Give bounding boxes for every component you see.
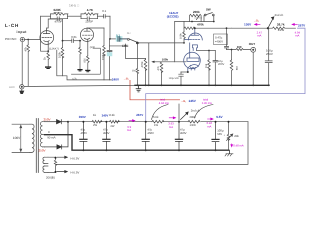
svg-text:2W: 2W	[110, 125, 114, 128]
feedback rail left drop	[41, 16, 49, 51]
svg-text:mA: mA	[169, 125, 173, 129]
magenta arrow right	[169, 117, 175, 119]
svg-text:→B₂: →B₂	[253, 20, 259, 23]
transformer HV secondary	[40, 122, 46, 147]
magenta 0.48 mA down arrow	[231, 144, 233, 147]
svg-text:mA: mA	[295, 34, 299, 38]
svg-text:mA: mA	[127, 128, 131, 132]
svg-text:4700P: 4700P	[55, 21, 63, 24]
earth terminal	[20, 85, 24, 89]
wire feedback rail	[41, 15, 51, 17]
svg-text:AUX: AUX	[9, 85, 15, 89]
diode D1	[45, 120, 69, 124]
plate wire V1b to 150k	[87, 27, 104, 29]
svg-text:2nd ch: 2nd ch	[275, 13, 284, 17]
junction	[62, 40, 64, 42]
resistor 15k cathode	[208, 51, 211, 86]
svg-text:(ECC82): (ECC82)	[167, 14, 179, 18]
ground bus top section	[24, 85, 135, 86]
jack ground drop	[252, 52, 254, 85]
svg-text:input: input	[17, 30, 28, 34]
hum balance vertical with taps	[48, 157, 57, 172]
svg-text:450V: 450V	[81, 131, 88, 135]
signal wire after node	[110, 38, 117, 40]
svg-text:50V: 50V	[217, 132, 222, 136]
heater winding 2	[43, 166, 48, 172]
heater bias loop	[56, 122, 249, 165]
purple wire 267V from PSU	[146, 28, 305, 121]
diode D2	[45, 122, 69, 149]
wire jack to grid V1a	[25, 39, 40, 41]
ground blob cathode V1b	[85, 70, 90, 72]
svg-text:SW: SW	[206, 7, 211, 11]
teal highlight second	[107, 52, 113, 56]
svg-text:267V: 267V	[136, 113, 143, 117]
plate wire 136V node	[232, 27, 268, 29]
resistor 100k grid vertical	[183, 22, 186, 43]
current arc 2	[195, 105, 214, 119]
svg-text:8.2k: 8.2k	[109, 113, 115, 117]
svg-text:47k: 47k	[24, 46, 28, 51]
tube V2b 12AU7 lower	[184, 43, 201, 72]
current arc 1	[152, 105, 169, 120]
svg-text:200k: 200k	[193, 10, 200, 14]
bypass cap box V1b	[71, 48, 100, 74]
svg-text:620K: 620K	[54, 8, 62, 12]
magenta arrow on rail	[129, 120, 135, 122]
svg-text:100k: 100k	[58, 51, 62, 58]
plate wire V1a	[47, 19, 63, 30]
svg-text:250V: 250V	[39, 148, 46, 152]
junction dots on rail	[191, 21, 193, 23]
svg-text:450V: 450V	[180, 131, 187, 135]
svg-text:26.7k: 26.7k	[277, 22, 285, 26]
junction plate V2a	[194, 27, 196, 29]
svg-text:200V: 200V	[218, 63, 224, 66]
svg-text:3.45 mA: 3.45 mA	[202, 102, 212, 105]
grid leak resistor V1b	[79, 41, 82, 69]
magenta arrow left 2	[292, 23, 297, 25]
tube V1b 12AX7	[80, 28, 93, 56]
wire from junction down to bus	[148, 43, 150, 85]
resistor 1k cathode V1a	[47, 51, 50, 66]
svg-text:820: 820	[83, 58, 86, 63]
junction cathode	[47, 50, 49, 52]
svg-text:mA: mA	[257, 34, 261, 38]
input jack J1	[20, 37, 24, 41]
svg-text:250V: 250V	[44, 117, 51, 121]
junction at 136V node	[267, 27, 269, 29]
svg-text:4.94 mA: 4.94 mA	[159, 102, 169, 105]
wire cathode V2a to 15k	[197, 50, 209, 52]
mute switch	[127, 38, 136, 42]
tube V2a 12AU7 upper (dome)	[185, 28, 203, 50]
chassis ground psu	[225, 150, 233, 156]
svg-text:1500P: 1500P	[85, 21, 93, 24]
svg-text:100k: 100k	[180, 33, 183, 39]
svg-text:47k: 47k	[157, 66, 160, 71]
junction small	[125, 45, 127, 47]
left vertical to grid	[174, 22, 176, 62]
resistor 1M grid leak on junction drop	[136, 43, 138, 85]
svg-text:4.7k: 4.7k	[72, 77, 77, 80]
svg-text:OUT: OUT	[249, 42, 256, 46]
svg-text:→B₁: →B₁	[123, 76, 129, 80]
svg-text:total: total	[203, 98, 208, 101]
svg-text:L-CH: L-CH	[5, 23, 19, 28]
svg-text:H 6.3V: H 6.3V	[71, 170, 80, 174]
svg-text:150k: 150k	[101, 53, 105, 60]
wire cathode V2b to bypass cap	[181, 71, 188, 73]
svg-text:245V: 245V	[189, 99, 197, 103]
svg-text:470k: 470k	[197, 22, 204, 26]
heater winding 1	[43, 157, 48, 163]
svg-text:1/2W: 1/2W	[190, 124, 197, 127]
resistor 47k input load (vertical)	[27, 40, 30, 86]
ground blob grid leak	[77, 69, 82, 71]
svg-text:(12AX7): (12AX7)	[49, 48, 59, 51]
svg-text:250V: 250V	[266, 52, 273, 56]
cap 0.01 coupling	[72, 39, 81, 43]
resistor 100k plate load V1a	[61, 19, 64, 76]
svg-text:(200kA): (200kA)	[195, 17, 203, 20]
svg-text:136V: 136V	[244, 23, 252, 27]
resistor 150k plate load V1b	[103, 28, 106, 80]
junction dot big	[136, 42, 139, 45]
cap 120u 50V cathode bypass	[179, 72, 184, 85]
wire drop to signal node	[109, 16, 111, 39]
magenta arrow small	[208, 118, 214, 120]
wire jack ground down to earth terminal	[21, 42, 23, 84]
svg-text:100V: 100V	[13, 136, 21, 140]
node D riser 245V	[178, 104, 180, 122]
svg-text:120µ 50V: 120µ 50V	[169, 77, 180, 80]
svg-text:H 6.3V: H 6.3V	[71, 156, 80, 160]
resistor 820 cathode V1b	[87, 56, 90, 70]
transformer core	[36, 119, 38, 173]
2nd ch arrow top	[268, 17, 274, 28]
OUT jack	[251, 47, 256, 52]
transformer T1 primary	[30, 124, 34, 152]
B+ rail PSU	[68, 121, 248, 123]
teal cap line vertical	[107, 39, 112, 80]
return rail thick	[45, 135, 229, 151]
svg-text:1M: 1M	[132, 69, 135, 72]
svg-text:450V: 450V	[147, 131, 154, 135]
RC loop2 4.7K + 1500P	[81, 13, 98, 21]
cap 0.1 series	[98, 15, 111, 19]
svg-text:15k: 15k	[205, 63, 208, 68]
magenta arrow left	[255, 23, 261, 25]
svg-text:total: total	[160, 98, 165, 101]
svg-text:1W: 1W	[154, 124, 158, 127]
2nd ch arrow psu	[181, 112, 189, 120]
RC loop1 620K + 4700P	[51, 13, 69, 21]
svg-text:200(B): 200(B)	[46, 176, 55, 180]
svg-text:4.7K: 4.7K	[87, 8, 94, 12]
red wire B1	[130, 80, 180, 100]
svg-text:350V: 350V	[79, 115, 86, 119]
small cap near switch junction	[110, 45, 128, 46]
svg-text:→B₁: →B₁	[180, 99, 186, 103]
chassis ground under earth terminal	[20, 89, 24, 93]
wire between loops	[68, 15, 82, 17]
resistor 33k vertical to bus	[230, 50, 233, 86]
ground symbol on bus	[136, 85, 141, 92]
tube V1a 12AX7	[40, 30, 54, 51]
svg-text:0.48 mA: 0.48 mA	[233, 144, 244, 148]
coupling cap 0.47u on drop	[224, 28, 228, 49]
cap 10u 200V bypass	[209, 51, 218, 86]
svg-text:340V: 340V	[102, 113, 109, 117]
boxed label 0.47u 400V	[214, 34, 228, 45]
svg-text:mA: mA	[207, 124, 211, 128]
svg-text:SH: SH	[127, 32, 131, 35]
svg-text:2W: 2W	[93, 124, 97, 127]
svg-text:100k: 100k	[162, 57, 169, 61]
svg-text:20k: 20k	[234, 134, 239, 138]
teal cap 0.1 highlighted	[116, 36, 123, 41]
svg-text:33k: 33k	[235, 66, 238, 71]
AC input lines	[12, 124, 30, 152]
ground blob V1a cathode	[45, 66, 51, 69]
svg-text:×400V: ×400V	[215, 40, 224, 44]
svg-text:0.1: 0.1	[102, 9, 106, 13]
resistor 47k second vertical	[160, 62, 163, 86]
svg-text:267V: 267V	[298, 23, 306, 27]
svg-text:490k: 490k	[189, 115, 196, 119]
junction input load	[27, 39, 29, 41]
svg-text:470k: 470k	[140, 61, 144, 68]
wire plate node to coupling cap	[63, 40, 72, 42]
junction at node	[109, 38, 111, 40]
B+ rail 240V first stages	[57, 50, 112, 80]
heater arrows H 6.3V	[57, 156, 67, 173]
svg-text:9.5V: 9.5V	[216, 115, 223, 119]
top rail	[175, 21, 214, 23]
svg-text:240V: 240V	[112, 77, 120, 81]
wire to 12AU7 grid rail	[137, 42, 184, 44]
svg-text:5.6k: 5.6k	[153, 115, 159, 119]
svg-text:2nd ch: 2nd ch	[191, 108, 200, 112]
svg-text:1kHz □: 1kHz □	[69, 4, 79, 8]
svg-text:90 mA: 90 mA	[47, 136, 55, 140]
svg-text:0.01: 0.01	[71, 35, 77, 39]
resistor 470k grid leak vertical	[125, 44, 146, 85]
svg-text:PHONO: PHONO	[5, 37, 17, 41]
